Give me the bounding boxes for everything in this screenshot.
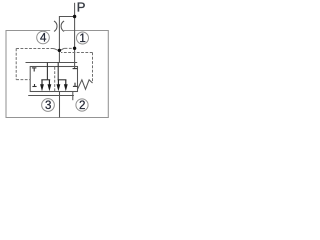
svg-text:1: 1 — [79, 33, 85, 45]
svg-text:3: 3 — [45, 100, 51, 112]
svg-text:2: 2 — [79, 100, 85, 112]
svg-text:P: P — [77, 0, 86, 15]
svg-text:4: 4 — [40, 33, 47, 45]
